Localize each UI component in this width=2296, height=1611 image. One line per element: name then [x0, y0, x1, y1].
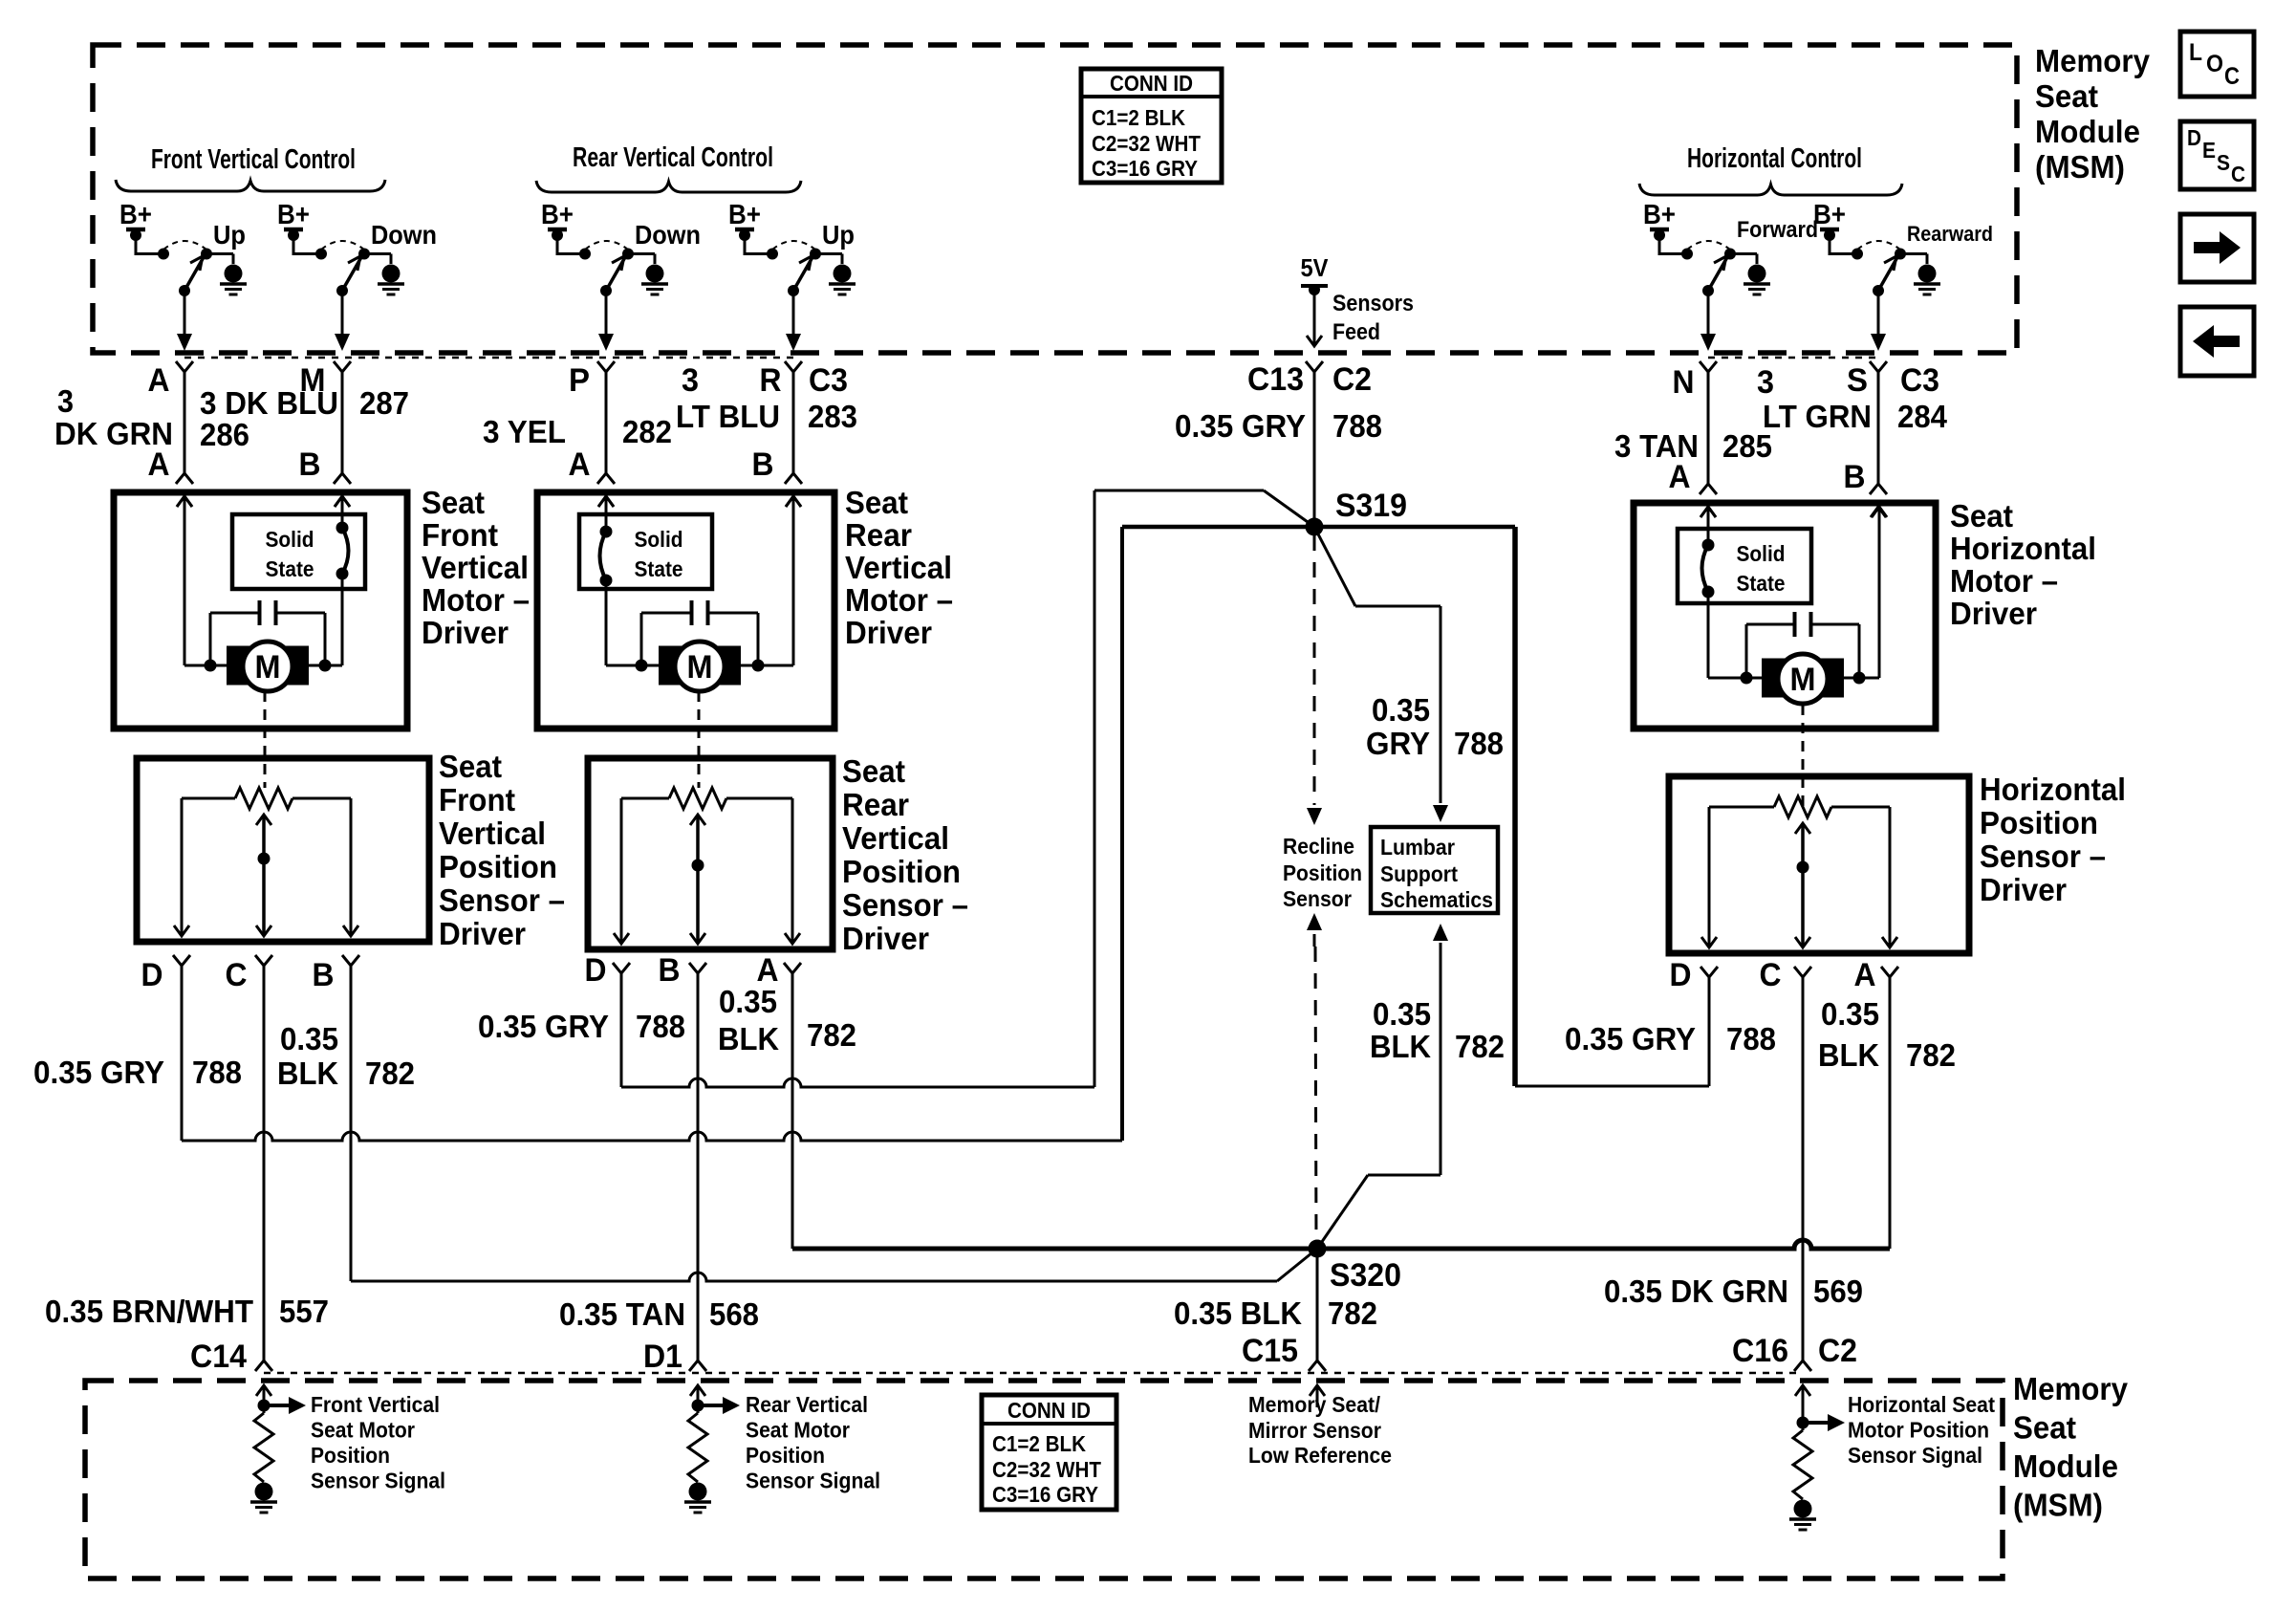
svg-text:3: 3	[57, 383, 74, 419]
motor driver box outline	[537, 492, 834, 729]
wiper arm	[1795, 823, 1810, 834]
svg-text:B+: B+	[1643, 200, 1676, 230]
svg-text:788: 788	[636, 1009, 685, 1044]
right wire inside box	[786, 496, 801, 507]
junction dot at C16	[1797, 1417, 1809, 1429]
svg-text:Module: Module	[2013, 1448, 2118, 1484]
node S319	[1306, 518, 1324, 536]
svg-text:BLK: BLK	[718, 1021, 779, 1056]
svg-text:Front Vertical Control: Front Vertical Control	[151, 144, 356, 175]
svg-text:0.35: 0.35	[1821, 996, 1879, 1032]
svg-text:Horizontal Control: Horizontal Control	[1687, 143, 1862, 174]
CONN ID table top	[1081, 69, 1222, 183]
resistor at D1	[697, 1405, 700, 1413]
connector half (female fork)	[785, 473, 802, 484]
svg-text:C: C	[2224, 63, 2240, 90]
svg-text:C: C	[1760, 957, 1782, 993]
svg-text:B+: B+	[119, 200, 152, 230]
svg-text:Rear: Rear	[842, 787, 909, 822]
switch contact / ground branch (Up)	[201, 249, 212, 260]
svg-text:LT BLU: LT BLU	[676, 399, 780, 434]
svg-text:Horizontal: Horizontal	[1950, 531, 2096, 566]
ground symbol (Down)	[382, 265, 401, 283]
svg-text:M: M	[255, 649, 281, 686]
node S320	[1309, 1240, 1327, 1258]
svg-text:788: 788	[1726, 1021, 1776, 1056]
connector half (female fork)	[597, 473, 615, 484]
ground symbol (Rearward)	[1918, 265, 1937, 283]
right wire inside box	[1872, 507, 1887, 517]
connector half (female fork)	[1700, 484, 1717, 494]
svg-text:Seat: Seat	[845, 485, 908, 520]
svg-text:287: 287	[359, 385, 409, 421]
connector C14 male arrow into MSM	[256, 1385, 271, 1396]
wire front sensor C to C14	[263, 966, 266, 1361]
svg-text:0.35 BRN/WHT: 0.35 BRN/WHT	[45, 1294, 253, 1329]
svg-text:Sensor: Sensor	[1283, 886, 1352, 911]
connector half (male arrow)	[1700, 507, 1716, 517]
svg-text:A: A	[1669, 459, 1691, 495]
dashed link motor2 to sensor2	[698, 691, 701, 788]
svg-text:557: 557	[279, 1294, 329, 1329]
box Lumbar Support Schematics	[1371, 827, 1498, 913]
svg-text:A: A	[569, 446, 591, 483]
wire rear sensor D link to S319	[1094, 490, 1096, 1087]
switch output wire (Down)	[605, 291, 608, 335]
motor driver box outline	[1634, 503, 1936, 729]
svg-text:P: P	[569, 362, 590, 399]
svg-text:Seat: Seat	[2035, 78, 2098, 114]
wire rear sensor A to S320 bus	[791, 972, 794, 1249]
connector half (female fork)	[176, 473, 193, 484]
svg-text:Driver: Driver	[1980, 872, 2067, 907]
left wire inside box	[1700, 507, 1716, 517]
svg-text:782: 782	[1906, 1037, 1956, 1073]
svg-text:Position: Position	[1283, 860, 1362, 885]
wire recline dashed lower	[1307, 913, 1322, 930]
svg-text:Driver: Driver	[842, 921, 929, 956]
svg-text:M: M	[687, 649, 713, 686]
Memory Seat Module (MSM) top dashed box	[93, 45, 2017, 353]
motor supply line	[606, 664, 793, 667]
switch contact / ground branch (Forward)	[1724, 249, 1736, 260]
left wire inside box	[598, 496, 614, 507]
svg-text:282: 282	[622, 414, 672, 449]
wire B+ to contact (Up)	[136, 252, 163, 255]
svg-text:Seat: Seat	[1950, 498, 2013, 533]
svg-text:Rear Vertical Control: Rear Vertical Control	[573, 142, 773, 173]
svg-text:0.35 GRY: 0.35 GRY	[1175, 408, 1306, 444]
svg-text:C2=32 WHT: C2=32 WHT	[1092, 131, 1201, 156]
svg-text:286: 286	[200, 417, 249, 452]
svg-text:Sensor Signal: Sensor Signal	[746, 1469, 880, 1493]
connector C15 fork	[1309, 1361, 1326, 1371]
svg-text:GRY: GRY	[1366, 726, 1430, 761]
svg-text:B: B	[659, 952, 681, 989]
position sensor box outline	[137, 758, 429, 942]
junction dot at D1	[692, 1400, 704, 1412]
svg-text:Memory: Memory	[2013, 1371, 2129, 1406]
wire rear sensor B to D1	[697, 973, 700, 1361]
motor M symbol	[659, 646, 682, 686]
svg-text:C2: C2	[1332, 361, 1372, 398]
svg-text:BLK: BLK	[1370, 1029, 1431, 1064]
wiper arm	[256, 815, 271, 825]
brace Horizontal Control	[1639, 184, 1902, 195]
svg-text:Memory Seat/: Memory Seat/	[1248, 1392, 1380, 1417]
sensor left wire	[620, 798, 623, 942]
wire pin to motor box x=358	[341, 372, 344, 473]
wire S320 to C15	[1316, 1249, 1319, 1361]
potentiometer resistor	[1709, 806, 1774, 809]
svg-text:B: B	[1844, 459, 1866, 495]
svg-text:Rear Vertical: Rear Vertical	[746, 1392, 868, 1417]
switch contact / ground branch (Down)	[622, 249, 634, 260]
wire horizontal sensor A to S320 bus	[1889, 976, 1892, 1249]
connector fork pin x=193	[176, 361, 193, 372]
svg-text:0.35: 0.35	[1373, 996, 1431, 1032]
wire B+ to contact (Up)	[745, 252, 772, 255]
wire lumbar support to S320	[1433, 924, 1448, 941]
dashed link motor1 to sensor1	[264, 691, 267, 788]
connector C16 male arrow into MSM	[1795, 1385, 1810, 1396]
svg-text:782: 782	[1455, 1029, 1505, 1064]
svg-text:B+: B+	[541, 200, 574, 230]
position sensor box outline	[1669, 776, 1969, 953]
connector C15 stub into MSM	[1310, 1385, 1325, 1396]
svg-text:0.35 GRY: 0.35 GRY	[478, 1009, 609, 1044]
svg-text:Sensor –: Sensor –	[1980, 838, 2106, 874]
sensor left wire	[181, 798, 184, 934]
svg-text:Rear: Rear	[845, 517, 912, 553]
svg-text:Schematics: Schematics	[1380, 887, 1493, 912]
wire pin to motor box x=1787	[1707, 372, 1710, 484]
switch armature (Rearward)	[1878, 257, 1897, 291]
svg-text:B+: B+	[1813, 200, 1846, 230]
solid state box	[579, 514, 712, 589]
svg-text:Vertical: Vertical	[842, 820, 949, 856]
svg-text:Motor –: Motor –	[422, 582, 530, 618]
svg-text:C3: C3	[1900, 362, 1939, 399]
svg-text:Position: Position	[746, 1443, 825, 1468]
svg-text:State: State	[635, 556, 683, 581]
svg-text:A: A	[148, 362, 170, 399]
resistor at C14	[263, 1405, 266, 1413]
svg-text:C2=32 WHT: C2=32 WHT	[992, 1457, 1101, 1482]
left arrow legend box	[2180, 307, 2254, 376]
Memory Seat Module (MSM) bottom dashed box	[85, 1381, 2003, 1578]
signal arrow at C14	[264, 1404, 289, 1407]
switch output wire (Up)	[184, 291, 186, 335]
svg-text:C: C	[2231, 162, 2245, 186]
motor driver box outline	[114, 492, 407, 729]
svg-text:Horizontal Seat: Horizontal Seat	[1848, 1392, 1995, 1417]
svg-text:Seat: Seat	[439, 749, 502, 784]
svg-text:C13: C13	[1247, 361, 1304, 398]
svg-text:Forward: Forward	[1737, 217, 1818, 243]
svg-text:Feed: Feed	[1332, 319, 1380, 345]
svg-text:0.35 GRY: 0.35 GRY	[1565, 1021, 1696, 1056]
svg-text:283: 283	[808, 399, 857, 434]
wire pin to motor box x=830	[792, 372, 795, 473]
svg-text:C: C	[226, 957, 248, 993]
svg-text:0.35: 0.35	[280, 1021, 338, 1056]
wire B+ to contact (Forward)	[1659, 252, 1687, 255]
switch armature (Down)	[342, 257, 361, 291]
svg-text:C3: C3	[809, 362, 848, 399]
ground at D1	[689, 1483, 707, 1501]
svg-text:D: D	[141, 957, 163, 993]
svg-text:Recline: Recline	[1283, 834, 1354, 859]
svg-text:Seat: Seat	[842, 753, 905, 789]
svg-text:S: S	[2217, 150, 2230, 175]
svg-text:Position: Position	[439, 849, 557, 884]
svg-text:C15: C15	[1242, 1333, 1298, 1369]
solid state switch arc	[600, 532, 607, 580]
wire B+ to contact (Rearward)	[1830, 252, 1857, 255]
switch armature (Up)	[184, 257, 204, 291]
sensor pin forks	[173, 955, 190, 966]
svg-text:569: 569	[1813, 1274, 1863, 1309]
svg-text:D: D	[2187, 125, 2201, 150]
LOC legend box	[2180, 32, 2254, 97]
switch dashed throw arc (Rearward)	[1857, 241, 1900, 250]
svg-text:Front Vertical: Front Vertical	[311, 1392, 440, 1417]
svg-text:Down: Down	[371, 220, 437, 250]
motor supply line	[1708, 677, 1879, 680]
svg-text:Sensor –: Sensor –	[842, 887, 968, 923]
svg-text:Solid: Solid	[266, 527, 314, 552]
switch armature (Forward)	[1708, 257, 1727, 291]
connector half (male arrow)	[598, 496, 614, 507]
svg-text:C14: C14	[190, 1339, 247, 1375]
connector D1 fork	[689, 1361, 706, 1371]
svg-text:Vertical: Vertical	[439, 816, 546, 851]
svg-text:BLK: BLK	[277, 1056, 338, 1091]
svg-text:Seat: Seat	[2013, 1410, 2076, 1446]
svg-text:CONN ID: CONN ID	[1110, 71, 1193, 96]
svg-text:Sensors: Sensors	[1332, 291, 1414, 316]
resistor at C16	[1802, 1423, 1805, 1430]
right arrow legend box	[2180, 214, 2254, 282]
svg-text:D: D	[585, 952, 607, 989]
wire recline dashed upper	[1313, 535, 1316, 805]
solid state switch arc	[1702, 545, 1709, 592]
svg-text:Driver: Driver	[845, 615, 932, 650]
svg-text:B: B	[313, 957, 335, 993]
svg-text:Position: Position	[842, 854, 961, 889]
svg-text:Sensor Signal: Sensor Signal	[1848, 1443, 1982, 1468]
svg-text:Support: Support	[1380, 861, 1458, 886]
potentiometer resistor	[182, 797, 235, 800]
solid state box	[1678, 529, 1811, 603]
svg-text:0.35 TAN: 0.35 TAN	[559, 1296, 685, 1332]
svg-text:0.35: 0.35	[719, 984, 777, 1019]
svg-text:3: 3	[1757, 364, 1774, 401]
junction dot at C14	[258, 1400, 271, 1412]
svg-text:Position: Position	[311, 1443, 390, 1468]
svg-text:Front: Front	[422, 517, 498, 553]
svg-text:3 DK BLU: 3 DK BLU	[200, 385, 338, 421]
wiper arm	[690, 815, 705, 825]
sensor right wire	[350, 798, 353, 934]
svg-text:Down: Down	[635, 220, 701, 250]
svg-text:Solid: Solid	[635, 527, 683, 552]
potentiometer resistor	[621, 797, 669, 800]
svg-text:BLK: BLK	[1818, 1037, 1879, 1073]
solid state box	[232, 514, 365, 589]
connector fork pin x=1965	[1870, 361, 1887, 372]
svg-text:Mirror Sensor: Mirror Sensor	[1248, 1418, 1381, 1443]
capacitor loop	[210, 612, 260, 615]
connector half (male arrow)	[177, 496, 192, 507]
svg-text:0.35: 0.35	[1372, 692, 1430, 728]
ground symbol (Up)	[225, 265, 243, 283]
svg-text:Seat Motor: Seat Motor	[311, 1418, 415, 1443]
connector half (female fork)	[1870, 484, 1887, 494]
dashed link motor3 to sensor3	[1802, 705, 1805, 809]
svg-text:788: 788	[192, 1055, 242, 1090]
svg-text:Sensor Signal: Sensor Signal	[311, 1469, 445, 1493]
switch dashed throw arc (Down)	[585, 241, 628, 250]
svg-text:Driver: Driver	[422, 615, 509, 650]
connector bus dashed line left group	[184, 357, 793, 359]
svg-text:A: A	[148, 446, 170, 483]
svg-text:Front: Front	[439, 782, 515, 817]
wire pin to motor box x=634	[605, 372, 608, 473]
sensor right wire	[1889, 807, 1892, 946]
svg-text:C3=16 GRY: C3=16 GRY	[992, 1482, 1098, 1507]
svg-text:Low Reference: Low Reference	[1248, 1443, 1392, 1468]
ground at C16	[1794, 1500, 1812, 1518]
sensor pin forks	[1700, 967, 1718, 977]
wire B+ to contact (Down)	[557, 252, 585, 255]
motor M symbol	[227, 646, 249, 686]
svg-text:State: State	[1737, 571, 1786, 596]
svg-text:Seat: Seat	[422, 485, 485, 520]
switch armature (Down)	[606, 257, 625, 291]
svg-text:568: 568	[709, 1296, 759, 1332]
DESC legend box	[2180, 121, 2254, 189]
ground symbol (Up)	[834, 265, 852, 283]
svg-text:D: D	[1670, 957, 1692, 993]
solid state switch arc	[342, 528, 349, 574]
connector D1 male arrow into MSM	[690, 1385, 705, 1396]
CONN ID table bottom	[982, 1395, 1116, 1510]
svg-text:Lumbar: Lumbar	[1380, 835, 1455, 860]
svg-text:Up: Up	[213, 220, 246, 250]
switch output wire (Down)	[341, 291, 344, 335]
position sensor box outline	[588, 758, 833, 949]
capacitor loop	[1746, 623, 1795, 626]
svg-text:Rearward: Rearward	[1907, 222, 1993, 246]
svg-text:788: 788	[1332, 408, 1382, 444]
switch contact / ground branch (Down)	[358, 249, 370, 260]
svg-text:782: 782	[1328, 1295, 1377, 1331]
connector half (male arrow)	[335, 496, 350, 507]
connector fork pin x=358	[334, 361, 351, 372]
motor M symbol	[1762, 659, 1785, 698]
svg-text:Sensor –: Sensor –	[439, 882, 565, 918]
svg-text:Module: Module	[2035, 114, 2140, 149]
svg-text:B+: B+	[728, 200, 761, 230]
svg-text:Driver: Driver	[439, 916, 526, 951]
svg-text:A: A	[1854, 957, 1876, 993]
switch dashed throw arc (Down)	[321, 241, 364, 250]
brace Rear Vertical Control	[536, 181, 801, 192]
svg-text:B+: B+	[277, 200, 310, 230]
svg-text:C2: C2	[1818, 1333, 1857, 1369]
wire S319 bus horizontal	[1122, 525, 1515, 530]
right wire inside box	[335, 496, 350, 507]
svg-text:C3=16 GRY: C3=16 GRY	[1092, 156, 1198, 181]
svg-text:D1: D1	[643, 1339, 682, 1375]
ground symbol (Forward)	[1748, 265, 1766, 283]
connector half (male arrow)	[1871, 507, 1886, 517]
brace Front Vertical Control	[116, 180, 385, 191]
switch contact / ground branch (Rearward)	[1895, 249, 1906, 260]
svg-text:C1=2 BLK: C1=2 BLK	[992, 1431, 1086, 1456]
signal arrow at D1	[698, 1404, 723, 1407]
ground at C14	[255, 1483, 273, 1501]
connector fork pin x=634	[597, 361, 615, 372]
wire S319 to horizontal sensor D riser	[1512, 527, 1518, 1086]
signal arrow at C16	[1803, 1421, 1828, 1425]
switch contact / ground branch (Up)	[810, 249, 821, 260]
svg-text:Motor –: Motor –	[845, 582, 953, 618]
svg-text:5V: 5V	[1301, 253, 1330, 282]
connector fork pin x=1787	[1700, 361, 1717, 372]
connector bus dashed line bottom	[264, 1372, 1803, 1375]
wire pin to motor box x=1965	[1877, 372, 1880, 484]
switch output wire (Forward)	[1707, 291, 1710, 335]
svg-text:N: N	[1673, 364, 1695, 401]
left wire inside box	[177, 496, 192, 507]
sensor pin forks	[613, 963, 630, 973]
svg-text:Motor Position: Motor Position	[1848, 1418, 1989, 1443]
ground symbol (Down)	[646, 265, 664, 283]
svg-text:284: 284	[1897, 399, 1948, 434]
wire front sensor D riser to S319 bus	[1120, 527, 1124, 1141]
svg-text:S319: S319	[1335, 488, 1407, 524]
svg-text:Motor –: Motor –	[1950, 563, 2058, 599]
svg-text:782: 782	[807, 1017, 856, 1053]
switch dashed throw arc (Up)	[163, 241, 206, 250]
svg-text:Memory: Memory	[2035, 43, 2151, 78]
connector bus dashed line right group	[1708, 357, 1878, 359]
svg-text:E: E	[2202, 138, 2216, 163]
svg-text:B: B	[299, 446, 321, 483]
sensor left wire	[1708, 807, 1711, 946]
svg-text:B: B	[752, 446, 774, 483]
svg-text:0.35 BLK: 0.35 BLK	[1174, 1295, 1302, 1331]
capacitor loop	[641, 612, 692, 615]
svg-text:788: 788	[1454, 726, 1504, 761]
svg-text:State: State	[266, 556, 314, 581]
svg-text:R: R	[760, 362, 782, 399]
wire rear sensor D horizontal run	[621, 1078, 1094, 1087]
svg-text:LT GRN: LT GRN	[1763, 399, 1872, 434]
svg-text:Vertical: Vertical	[845, 550, 952, 585]
switch armature (Up)	[793, 257, 812, 291]
connector half (male arrow)	[786, 496, 801, 507]
svg-text:C1=2 BLK: C1=2 BLK	[1092, 105, 1185, 130]
wire B+ to contact (Down)	[293, 252, 321, 255]
svg-text:O: O	[2206, 51, 2223, 77]
wire pin to motor box x=193	[184, 372, 186, 473]
wire S320 bus horizontal	[792, 1240, 1890, 1249]
switch dashed throw arc (Up)	[772, 241, 815, 250]
